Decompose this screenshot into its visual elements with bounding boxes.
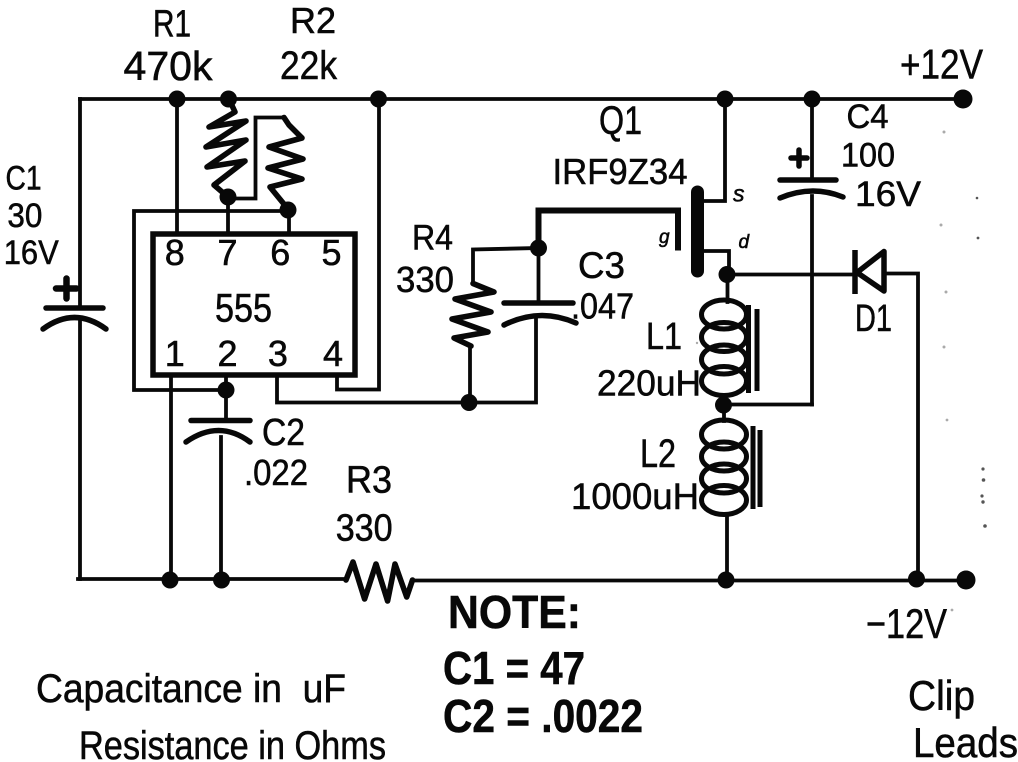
svg-text:Capacitance in uF: Capacitance in uF (36, 667, 346, 711)
svg-text:.047: .047 (571, 286, 634, 327)
svg-text:2: 2 (217, 333, 237, 374)
svg-text:5: 5 (321, 232, 341, 273)
svg-text:D1: D1 (855, 298, 892, 340)
svg-text:3: 3 (268, 333, 288, 374)
svg-text:16V: 16V (4, 234, 59, 272)
svg-text:C2: C2 (262, 412, 305, 454)
svg-text:NOTE:: NOTE: (448, 586, 581, 638)
svg-text:8: 8 (165, 232, 185, 273)
svg-text:.022: .022 (244, 452, 308, 493)
svg-text:6: 6 (270, 232, 290, 273)
svg-text:330: 330 (336, 508, 393, 550)
svg-text:R4: R4 (412, 219, 453, 258)
svg-text:R1: R1 (153, 4, 191, 46)
svg-text:100: 100 (841, 137, 895, 175)
svg-text:IRF9Z34: IRF9Z34 (553, 151, 688, 192)
svg-text:s: s (733, 181, 745, 207)
svg-text:g: g (659, 227, 670, 248)
svg-text:+12V: +12V (900, 41, 983, 88)
svg-text:330: 330 (396, 259, 454, 300)
svg-text:R3: R3 (346, 460, 392, 502)
svg-text:470k: 470k (124, 43, 213, 89)
svg-text:−12V: −12V (866, 600, 947, 647)
svg-text:1: 1 (165, 333, 185, 374)
svg-text:C1 = 47: C1 = 47 (443, 642, 585, 694)
svg-text:C3: C3 (578, 245, 625, 286)
svg-text:C4: C4 (847, 98, 889, 136)
svg-text:Clip: Clip (908, 672, 975, 719)
svg-text:4: 4 (323, 333, 343, 374)
svg-text:C1: C1 (6, 160, 42, 198)
svg-text:Resistance in Ohms: Resistance in Ohms (79, 724, 386, 762)
svg-text:7: 7 (217, 232, 237, 273)
svg-text:L2: L2 (640, 432, 676, 476)
svg-text:30: 30 (7, 197, 42, 235)
svg-text:16V: 16V (855, 175, 922, 214)
svg-text:555: 555 (215, 287, 272, 331)
svg-text:1000uH: 1000uH (571, 476, 699, 517)
svg-text:Leads: Leads (913, 719, 1018, 762)
svg-text:L1: L1 (646, 316, 682, 358)
svg-text:220uH: 220uH (597, 363, 701, 404)
svg-text:Q1: Q1 (599, 99, 642, 143)
svg-text:R2: R2 (290, 0, 336, 41)
svg-text:d: d (739, 232, 751, 253)
svg-text:C2 = .0022: C2 = .0022 (443, 690, 643, 742)
svg-text:22k: 22k (280, 44, 338, 88)
